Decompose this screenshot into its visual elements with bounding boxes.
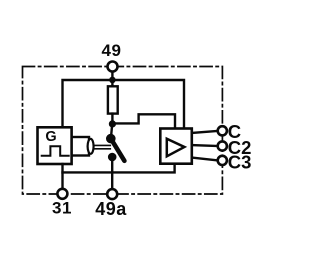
wire: ground rail to amplifier bottom pin (63, 164, 175, 173)
svg-text:31: 31 (52, 199, 72, 218)
relay coil actuator (cylinder with push rod) (71, 137, 110, 156)
terminal C2 (218, 141, 227, 150)
wire: G box bottom to ground rail and terminal 31 (61, 164, 63, 189)
pulse generator G (38, 127, 72, 164)
amplifier (160, 129, 192, 164)
junction: switch pivot (moving contact) (106, 134, 116, 144)
wire: rail to resistor top (111, 80, 113, 87)
housing outline (dash-dot enclosure) (23, 67, 223, 195)
junction: fixed contact (to 49a) (108, 153, 117, 162)
wire: supply rail from terminal 49 junction left/down to G and right/down to amplifier (63, 80, 185, 129)
relay switch lever (111, 139, 125, 161)
terminal C (218, 126, 227, 135)
wire: terminal 49 drop to supply rail (111, 71, 113, 80)
wire: fixed contact down to terminal 49a (111, 157, 113, 189)
resistor (108, 86, 118, 113)
svg-text:G: G (45, 129, 56, 145)
wire: jog from junction to amplifier input (top pin) (112, 114, 175, 128)
terminal 49a (107, 189, 117, 199)
junction: 49 / rail / resistor (109, 77, 116, 84)
wire: resistor bottom to switch common junction (111, 114, 113, 124)
terminal C3 (218, 156, 227, 165)
wire: amplifier output to terminal C (192, 131, 218, 133)
terminal 31 (57, 189, 67, 199)
terminal 49 (108, 62, 118, 72)
svg-text:49a: 49a (95, 199, 127, 219)
wire: amplifier output to terminal C2 (192, 144, 218, 147)
wire: amplifier output to terminal C3 (192, 158, 218, 161)
wire: junction down to switch pivot (111, 124, 112, 138)
svg-text:49: 49 (101, 41, 121, 60)
junction: resistor / switch / amplifier input (109, 120, 116, 127)
svg-text:C3: C3 (228, 152, 252, 173)
